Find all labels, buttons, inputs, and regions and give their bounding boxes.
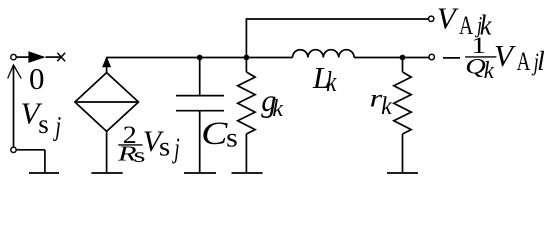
svg-text:k: k [272,96,283,122]
svg-text:s: s [159,132,170,162]
svg-text:s: s [226,122,238,152]
svg-text:A: A [517,47,531,76]
svg-text:V: V [494,38,516,73]
svg-text:k: k [484,58,495,85]
svg-text:l: l [537,45,545,76]
svg-text:V: V [437,1,459,36]
svg-text:0: 0 [29,61,45,96]
svg-text:k: k [326,65,336,97]
svg-text:s: s [38,109,49,139]
svg-text:C: C [201,116,228,152]
svg-text:k: k [381,92,393,120]
svg-text:Q: Q [465,54,486,79]
